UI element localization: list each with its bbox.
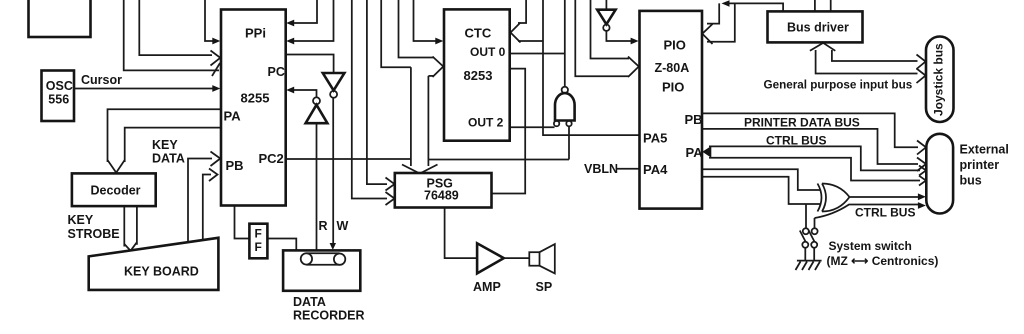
tape lines <box>306 253 339 265</box>
svg-text:AMP: AMP <box>473 280 501 294</box>
wire: bus line into PPi left (slash tick) <box>124 0 219 70</box>
svg-text:System switch: System switch <box>829 239 912 253</box>
svg-text:Cursor: Cursor <box>81 73 122 87</box>
DATA RECORDER box <box>283 250 360 290</box>
inverter INV1 (down) triangle <box>323 73 345 90</box>
wire: KEY DATA inner line <box>203 175 211 240</box>
wire: PRINTER DATA BUS line <box>702 113 918 147</box>
svg-text:(MZ ⟷ Centronics): (MZ ⟷ Centronics) <box>827 254 939 268</box>
AMP triangle <box>477 243 504 273</box>
inverter INV2 bubble <box>313 97 320 104</box>
svg-text:PB: PB <box>685 112 703 127</box>
wire: PIO left chevron upper arm <box>591 0 630 59</box>
chevron into CTC left y66 <box>433 57 444 78</box>
wire: Cursor line from OSC to PPi <box>74 88 213 90</box>
wire: PC2 line <box>286 158 411 160</box>
inverter INV3 bubble <box>603 25 609 31</box>
XOR gate X1 input arcs <box>818 184 822 212</box>
box: PPi 8255 <box>221 10 286 206</box>
wire: PIO left chevron lower arm <box>575 0 629 76</box>
NAND gate N1 bubble out <box>562 87 568 93</box>
svg-text:PA: PA <box>686 145 704 160</box>
svg-text:Joystick bus: Joystick bus <box>932 43 946 116</box>
ground symbol <box>797 260 822 262</box>
NAND input bubble right <box>566 121 571 126</box>
wire: AMP to SP <box>504 257 530 259</box>
stadium: External printer bus <box>926 134 953 214</box>
svg-text:STROBE: STROBE <box>68 227 120 241</box>
wire: right switch riser <box>814 218 816 228</box>
wire: General purpose bus verticals <box>816 50 918 74</box>
chevron into PPi left at y58 <box>211 51 221 66</box>
wire: left switch tap <box>805 204 807 228</box>
wire: arrow into PPi right y41 <box>293 0 334 41</box>
svg-text:PRINTER DATA BUS: PRINTER DATA BUS <box>744 116 860 130</box>
wire: PA upper line to Decoder <box>108 109 222 162</box>
wire: line5 to XOR upper input <box>702 169 820 190</box>
wire: vertical 719 to chevron upper arm <box>707 3 719 23</box>
tape reel right <box>334 254 345 265</box>
small arrow into stadium y170 <box>919 166 926 176</box>
svg-text:R: R <box>319 219 328 233</box>
chevron into PSG left y198 <box>386 192 395 205</box>
svg-text:CTRL BUS: CTRL BUS <box>766 134 826 148</box>
chevron into PIO left y66 <box>628 57 639 78</box>
svg-text:OUT 2: OUT 2 <box>468 116 504 130</box>
svg-text:PB: PB <box>226 158 244 173</box>
NAND input bubble left <box>554 121 559 126</box>
svg-text:CTRL BUS: CTRL BUS <box>855 206 915 220</box>
svg-text:Decoder: Decoder <box>91 184 141 198</box>
wire: PA lower line to Decoder <box>125 128 221 162</box>
speaker SP horn <box>540 244 555 273</box>
svg-text:PIO: PIO <box>664 38 686 53</box>
svg-text:PA4: PA4 <box>643 162 668 177</box>
wire: solid arrow into CTC left y41 <box>414 0 437 41</box>
open arrowhead into Decoder top <box>108 160 125 173</box>
wire: Bus driver top stubs <box>815 0 831 11</box>
box: PSG 76489 <box>395 173 492 208</box>
svg-text:PC2: PC2 <box>259 151 284 166</box>
wire: line2 <box>702 129 918 164</box>
wire: vertical to PSG input upper <box>367 0 387 184</box>
inverter INV3 input <box>605 0 607 9</box>
open arrowhead onto keyboard <box>124 242 137 251</box>
inverter INV2 (up) triangle <box>306 105 328 123</box>
wire: CTC left chevron lower arm <box>428 75 434 77</box>
svg-text:CTC: CTC <box>465 26 492 41</box>
box: OSC 556 <box>42 71 75 122</box>
chevron into Joystick bus y75 <box>917 69 926 84</box>
stadium: Joystick bus <box>926 37 954 123</box>
wire: W line down to recorder <box>332 98 334 244</box>
svg-text:PC: PC <box>268 65 285 79</box>
svg-text:VBLN: VBLN <box>584 162 618 176</box>
wire: CTC right chevron upper arm <box>518 0 526 23</box>
svg-text:OUT 0: OUT 0 <box>470 45 506 59</box>
wire: branch from 543 into CTC right chevron <box>518 40 543 42</box>
FF box <box>249 224 267 259</box>
small arrow into stadium y180 <box>919 176 926 186</box>
chevron into PIO right y33.5 <box>702 24 712 44</box>
wire: Decoder to keyboard double line <box>124 206 137 246</box>
wire: CTC right to PSG right <box>492 69 526 194</box>
chevron into Joystick bus y61 <box>917 55 926 70</box>
wire: arrow into PPi right y23 <box>293 0 317 23</box>
switch SW2 contacts <box>812 228 818 234</box>
chevron into PSG left y184 <box>386 178 395 191</box>
wire: INV3 out to PIO arrow y41 <box>606 31 631 41</box>
wire: XOR output to stadium <box>850 196 920 198</box>
svg-text:PA5: PA5 <box>643 131 667 146</box>
chevron into PPi left at y174 <box>209 169 218 182</box>
wire: PC to inverter INV1 <box>286 55 334 73</box>
svg-text:SP: SP <box>536 280 553 294</box>
svg-text:KEY: KEY <box>68 213 94 227</box>
svg-text:KEY BOARD: KEY BOARD <box>124 265 199 279</box>
wire: line into PPi left solid arrow y41 <box>205 0 213 41</box>
svg-text:OSC: OSC <box>46 79 73 93</box>
open arrowhead into PSG top <box>402 165 438 174</box>
arrowhead right at (220,88.5) <box>212 85 220 92</box>
inverter INV1 bubble <box>330 91 337 98</box>
chevron into CTC right y32 <box>511 23 521 43</box>
wire: FF to recorder <box>267 239 296 251</box>
wire: PSG bus right vertical <box>427 76 429 166</box>
wire: R line from recorder to inverter INV2 <box>316 124 318 250</box>
wire: NAND right input down <box>568 126 570 159</box>
tape reel left <box>301 253 312 264</box>
switch SW1 contacts <box>803 228 809 234</box>
svg-text:bus: bus <box>960 174 982 188</box>
wire: PSG bus left vertical <box>410 67 412 166</box>
svg-text:KEY: KEY <box>152 138 178 152</box>
arrowhead left into PIO right (PA) <box>702 146 711 158</box>
wire: CTC left chevron upper arm <box>399 0 435 58</box>
svg-text:76489: 76489 <box>424 189 459 203</box>
box: Decoder <box>72 173 156 206</box>
box: Bus driver <box>768 11 863 42</box>
chevron into stadium y164 <box>917 158 926 172</box>
arrowhead right at (220,41) <box>212 38 220 45</box>
wire: OUT 2 line to NAND left input <box>510 126 555 128</box>
chevron into stadium y147 <box>917 141 926 155</box>
wire: net y159.5 from bus-right vertical to NAND input <box>428 159 569 161</box>
svg-text:8253: 8253 <box>464 68 493 83</box>
box: PIO Z-80A <box>640 11 703 209</box>
wire: PSG to AMP <box>445 208 476 259</box>
wire: NAND output vertical <box>564 0 566 86</box>
wire: top horizontal y3.4 with left arrow <box>726 3 783 11</box>
svg-text:PPi: PPi <box>245 26 266 41</box>
svg-text:printer: printer <box>960 158 1000 172</box>
wire: OUT 0 line <box>510 53 565 55</box>
svg-text:8255: 8255 <box>241 91 270 106</box>
wire: line4 <box>709 158 920 181</box>
speaker SP rect <box>529 252 539 266</box>
wire: line6 to XOR lower input <box>702 177 820 204</box>
wire: switch arc line to stadium <box>815 205 920 219</box>
wire: CTC right chevron lower arm, continues down to PA5 corner <box>543 0 639 135</box>
wire: KEY DATA outer line <box>188 159 212 242</box>
svg-text:Bus driver: Bus driver <box>787 21 849 35</box>
svg-text:F: F <box>255 227 262 241</box>
inverter INV3 (down) triangle <box>597 10 615 25</box>
wire: vertical to PSG input lower <box>352 0 387 199</box>
wire: vertical 734.8 to chevron lower arm <box>707 3 735 41</box>
switch SW1 lever <box>800 231 806 242</box>
svg-text:External: External <box>960 143 1009 157</box>
svg-text:Z-80A: Z-80A <box>655 61 690 75</box>
svg-text:DATA: DATA <box>293 295 326 309</box>
open arrowhead into Bus driver bottom <box>810 43 835 51</box>
wire slash tick at PPi left y70 <box>212 63 220 76</box>
wire: VBLN to PIO PA4 <box>617 168 640 170</box>
chevron into PPi left at y158 <box>211 152 221 167</box>
svg-text:DATA: DATA <box>152 152 185 166</box>
NAND gate N1 body <box>555 93 575 120</box>
wire: CTRL BUS line3 (arrow at PIO) <box>709 146 920 170</box>
switch SW2 lever <box>809 231 815 242</box>
svg-text:W: W <box>337 219 349 233</box>
svg-text:RECORDER: RECORDER <box>293 309 365 323</box>
wire: INV2 output into PPi right y90 <box>293 90 317 97</box>
svg-text:F: F <box>255 240 262 254</box>
wire: PPi bottom to FF <box>235 206 250 239</box>
box: top-left partial <box>29 0 91 37</box>
wire: switches to ground <box>805 248 814 261</box>
svg-text:PIO: PIO <box>662 80 684 95</box>
svg-text:PA: PA <box>224 109 242 124</box>
svg-text:556: 556 <box>48 93 69 107</box>
wire: bus line into PPi left chevron y57 <box>139 0 212 55</box>
box: CTC 8253 <box>444 9 510 140</box>
svg-text:General purpose input bus: General purpose input bus <box>764 79 913 92</box>
keyboard polygon <box>89 238 219 290</box>
XOR gate X1 body <box>822 184 850 212</box>
wire: vertical 381 feeding PSG bus left <box>381 0 411 67</box>
